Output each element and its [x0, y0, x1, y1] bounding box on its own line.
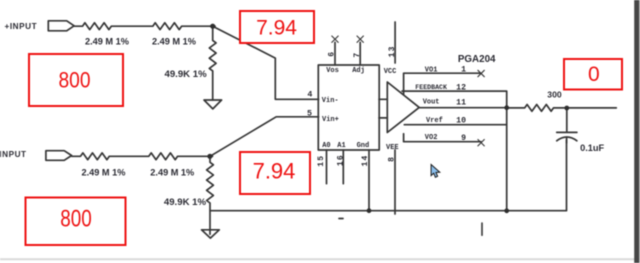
svg-text:11: 11	[456, 98, 466, 107]
svg-text:14: 14	[361, 154, 370, 166]
svg-text:800: 800	[60, 206, 91, 233]
svg-text:VEE: VEE	[386, 144, 399, 152]
svg-text:0: 0	[588, 63, 600, 86]
svg-text:+INPUT: +INPUT	[5, 22, 38, 31]
svg-text:Adj: Adj	[352, 67, 365, 75]
svg-text:Vout: Vout	[423, 99, 440, 107]
svg-text:VO1: VO1	[425, 66, 438, 74]
svg-text:FEEDBACK: FEEDBACK	[415, 84, 447, 91]
svg-text:PGA204: PGA204	[458, 54, 496, 65]
svg-text:1: 1	[461, 66, 466, 75]
svg-text:Vin-: Vin-	[322, 97, 339, 105]
svg-text:A0: A0	[322, 142, 330, 150]
svg-text:13: 13	[388, 45, 397, 57]
svg-text:49.9K 1%: 49.9K 1%	[164, 197, 207, 208]
svg-text:6: 6	[328, 52, 337, 57]
svg-text:12: 12	[456, 84, 466, 93]
svg-text:VCC: VCC	[384, 68, 397, 76]
svg-text:2.49 M 1%: 2.49 M 1%	[152, 37, 196, 47]
svg-text:7.94: 7.94	[256, 16, 297, 39]
svg-text:2.49 M 1%: 2.49 M 1%	[82, 168, 126, 178]
svg-text:10: 10	[456, 116, 466, 125]
svg-text:7.94: 7.94	[253, 159, 296, 184]
svg-text:Vref: Vref	[426, 117, 443, 125]
svg-text:Vin+: Vin+	[322, 116, 339, 124]
svg-text:15: 15	[317, 155, 326, 167]
svg-text:16: 16	[336, 154, 345, 166]
svg-text:Vos: Vos	[326, 67, 339, 75]
svg-text:0.1uF: 0.1uF	[580, 143, 604, 153]
svg-text:9: 9	[461, 134, 466, 143]
svg-text:2.49 M 1%: 2.49 M 1%	[150, 168, 194, 178]
svg-text:VO2: VO2	[425, 134, 438, 142]
svg-text:8: 8	[388, 157, 397, 162]
svg-text:4: 4	[307, 90, 312, 100]
svg-text:2.49 M 1%: 2.49 M 1%	[85, 37, 129, 47]
svg-text:800: 800	[59, 68, 91, 93]
svg-text:49.9K 1%: 49.9K 1%	[165, 69, 208, 80]
svg-text:-INPUT: -INPUT	[0, 150, 27, 159]
svg-text:300: 300	[547, 90, 562, 100]
svg-text:A1: A1	[337, 142, 345, 150]
svg-text:5: 5	[307, 108, 312, 118]
svg-text:7: 7	[353, 53, 362, 58]
svg-text:Gnd: Gnd	[357, 142, 370, 150]
